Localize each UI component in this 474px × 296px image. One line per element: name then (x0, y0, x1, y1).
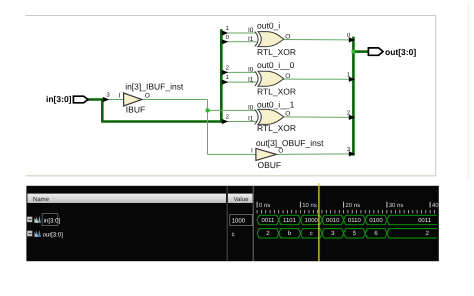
svg-text:I1: I1 (248, 116, 254, 123)
pin arrow bit2 tap to out0_i__1 I1 (222, 114, 230, 125)
svg-text:O: O (278, 148, 283, 155)
svg-text:out[3:0]: out[3:0] (385, 47, 416, 57)
svg-text:OBUF: OBUF (258, 160, 282, 170)
svg-text:in[3:0]: in[3:0] (46, 94, 72, 104)
xor gate out0_i (RTL_XOR) (248, 21, 296, 57)
svg-text:IBUF: IBUF (126, 104, 145, 114)
svg-text:O: O (285, 73, 290, 80)
svg-text:0010: 0010 (326, 217, 340, 224)
wire: IBUF net to xor out0_i__1 I0 (208, 109, 257, 111)
svg-text:I: I (119, 92, 121, 99)
svg-text:c: c (232, 231, 235, 238)
name column header (27, 194, 226, 203)
waveform row in[3:0] (257, 215, 437, 224)
buffer out[3]_OBUF_inst (OBUF) (251, 138, 324, 170)
svg-text:O: O (285, 111, 290, 118)
svg-text:out[3]_OBUF_inst: out[3]_OBUF_inst (256, 138, 324, 148)
input port in[3:0] (46, 94, 88, 104)
wire: in[3] tap to IBUF input (104, 99, 124, 101)
svg-text:I0: I0 (248, 105, 254, 112)
wire: right vertical bus collecting out bits (352, 37, 355, 156)
pin arrow bit0 tap to out0_i I1 (222, 34, 230, 45)
wire: out0_i output to out bus (284, 39, 350, 41)
junction: IBUF net split (206, 109, 210, 113)
svg-text:10 ns: 10 ns (302, 202, 317, 209)
svg-text:1000: 1000 (305, 217, 319, 224)
svg-text:I1: I1 (248, 36, 254, 43)
svg-text:Value: Value (234, 196, 250, 203)
signal icon in[3:0] (35, 216, 42, 223)
pin arrow out0_i__1 output into bit2 (347, 109, 355, 120)
expander for in[3:0] row (27, 217, 32, 222)
column divider lines (227, 186, 253, 261)
waveform viewer panel background (26, 186, 438, 261)
wire: bus bit0 to out0_i I1 (222, 41, 257, 43)
wire: left vertical bus distributing in bits (220, 29, 223, 122)
wire: in[3:0] bus from port, down and right to left bus riser (87, 98, 222, 121)
svg-text:0011: 0011 (418, 217, 432, 224)
wire: bus bit2 to out0_i__1 I1 (222, 121, 257, 123)
pin arrow out0_i__0 output into bit1 (347, 71, 355, 82)
wire: IBUF net to OBUF input (208, 153, 256, 155)
value 1000 with focus box (230, 214, 252, 225)
svg-text:Name: Name (33, 196, 50, 203)
wire: out0_i__0 output to out bus (284, 78, 350, 80)
buffer in[3]_IBUF_inst (IBUF) (119, 81, 184, 114)
svg-text:I0: I0 (248, 67, 254, 74)
pin arrow 3 into IBUF branch (103, 92, 111, 103)
svg-text:0 ns: 0 ns (259, 202, 270, 209)
pin arrow bit1 tap to out0_i__0 I1 (222, 74, 230, 85)
svg-text:1000: 1000 (232, 217, 246, 224)
pin arrow bit2 tap to out0_i__0 I0 (222, 64, 230, 75)
wire: bus bit2 to out0_i__0 I0 (222, 71, 257, 73)
svg-text:out0_i__0: out0_i__0 (257, 60, 295, 70)
name in[3:0] with focus box (42, 214, 60, 226)
wire: OBUF output to out bus (276, 153, 350, 156)
waveform row out[3:0] (257, 229, 437, 238)
svg-text:RTL_XOR: RTL_XOR (257, 86, 296, 96)
pin arrow OBUF output into bit3 (347, 146, 355, 157)
svg-text:1101: 1101 (283, 217, 297, 224)
output port out[3:0] (368, 47, 416, 57)
xor gate out0_i__0 (RTL_XOR) (248, 60, 296, 96)
svg-text:in[3]_IBUF_inst: in[3]_IBUF_inst (125, 81, 184, 91)
svg-text:O: O (285, 33, 290, 40)
svg-text:in[3:0]: in[3:0] (44, 217, 61, 224)
svg-text:c: c (310, 231, 313, 237)
svg-text:out0_i: out0_i (257, 21, 280, 31)
junction: out bus to port (352, 50, 356, 54)
svg-text:I: I (251, 148, 253, 155)
xor gate out0_i__1 (RTL_XOR) (248, 99, 296, 133)
pin arrow bit1 tap to out0_i I0 (222, 25, 230, 36)
wire: out bus junction to out port (353, 50, 368, 53)
expander for out[3:0] row (27, 231, 32, 236)
yellow time cursor (318, 183, 320, 261)
svg-text:out0_i__1: out0_i__1 (257, 99, 295, 109)
svg-text:30 ns: 30 ns (389, 202, 404, 209)
value column header (228, 194, 253, 203)
svg-text:0110: 0110 (348, 217, 362, 224)
wire: IBUF output net (142, 100, 208, 155)
wire: bus bit1 to out0_i I0 (222, 32, 257, 34)
svg-text:20 ns: 20 ns (345, 202, 360, 209)
svg-text:RTL_XOR: RTL_XOR (257, 47, 296, 57)
wire: bus bit1 to out0_i__0 I1 (222, 81, 257, 83)
svg-text:I1: I1 (248, 76, 254, 83)
svg-text:0011: 0011 (261, 217, 275, 224)
signal icon out[3:0] (35, 230, 42, 237)
pin arrow out0_i output into bit0 (347, 32, 355, 43)
svg-text:out[3:0]: out[3:0] (43, 232, 64, 239)
svg-text:0100: 0100 (369, 217, 383, 224)
svg-text:O: O (145, 92, 150, 99)
schematic panel border (26, 2, 469, 180)
wire: out0_i__1 output to out bus (284, 116, 350, 119)
svg-text:RTL_XOR: RTL_XOR (257, 123, 296, 133)
svg-text:I0: I0 (248, 27, 254, 34)
timeline ruler (257, 202, 446, 214)
